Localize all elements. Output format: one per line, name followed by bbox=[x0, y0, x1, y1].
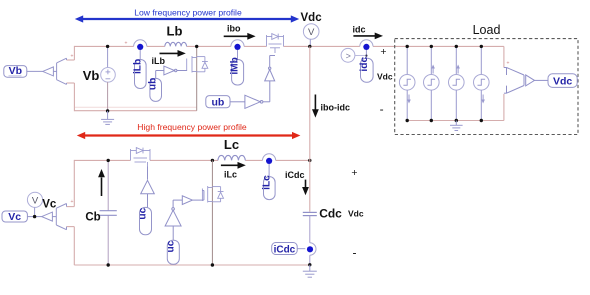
svg-text:>: > bbox=[346, 51, 351, 61]
wire: Vc tag to source bbox=[27, 216, 41, 218]
current source I3 bbox=[449, 46, 465, 120]
gate chain: uc tag to not-up triangle bbox=[165, 240, 179, 264]
junction dot right end bottom rail bbox=[308, 159, 311, 162]
junction dot bottom rail at Vb bbox=[106, 109, 109, 112]
wire not gate to right buffer bbox=[173, 200, 182, 208]
ground (load) bbox=[450, 121, 463, 131]
current source I2 bbox=[424, 46, 440, 120]
junction dots load bottom rail bbox=[406, 119, 483, 122]
svg-text:+: + bbox=[507, 61, 510, 67]
junction dot top rail at Cb bbox=[107, 159, 110, 162]
svg-text:V: V bbox=[32, 195, 39, 206]
goto tag Vdc bbox=[548, 74, 577, 88]
svg-text:ibo: ibo bbox=[227, 24, 241, 34]
scope bubble at idc sensor bbox=[341, 48, 365, 62]
ground (top circuit) bbox=[101, 111, 114, 125]
mosfet Mc1 (horizontal with diode, top) bbox=[131, 148, 151, 167]
junction dot switch node bbox=[195, 45, 198, 48]
svg-text:Lc: Lc bbox=[224, 137, 239, 152]
svg-text:Cb: Cb bbox=[85, 212, 100, 224]
wire: load bottom rail bbox=[407, 120, 504, 122]
svg-text:iMb: iMb bbox=[230, 57, 241, 75]
not gate (vertical, uc inverter) bbox=[165, 208, 181, 226]
annotation arrow ibo bbox=[224, 24, 256, 40]
mosfet Db (high-side, horizontal with diode) bbox=[267, 34, 284, 53]
annotation arrow iLb bbox=[152, 50, 186, 66]
svg-text:iCdc: iCdc bbox=[285, 170, 305, 180]
gate buffer triangle (horizontal) for Mc2 bbox=[182, 191, 204, 205]
wire: bottom rail y=265 bbox=[74, 264, 309, 266]
wire: bottom rail y=110.7 bbox=[74, 110, 196, 112]
LOAD bbox=[395, 23, 578, 135]
svg-text:iLc: iLc bbox=[224, 170, 237, 180]
junction dot Vc signal bbox=[33, 215, 36, 218]
controlled voltage source Vb (signal to electrical) bbox=[53, 54, 73, 85]
annotation arrow idc bbox=[353, 25, 384, 40]
svg-text:-: - bbox=[380, 102, 384, 116]
goto tag idc (vertical) bbox=[359, 57, 373, 83]
from tag Vc bbox=[2, 211, 27, 223]
wire: switch branch x=196.7 bbox=[196, 46, 198, 110]
capacitor Cdc bbox=[303, 212, 317, 215]
wire: Vb tag to source bbox=[27, 70, 43, 72]
svg-text:iLb: iLb bbox=[152, 56, 166, 66]
junction dot switch node c bbox=[211, 159, 214, 162]
annotation arrow iLc bbox=[221, 162, 246, 180]
junction dot bottom rail at switch branch bbox=[211, 263, 214, 266]
goto tag iLb (vertical) bbox=[132, 59, 146, 89]
capacitor Cb branch wire bbox=[107, 160, 109, 265]
current sensor iLc bbox=[263, 154, 276, 177]
junction dots load top rail bbox=[406, 45, 483, 48]
svg-text:ub: ub bbox=[148, 78, 159, 90]
wire uc tag up bbox=[172, 226, 174, 240]
svg-text:Load: Load bbox=[473, 23, 501, 37]
svg-text:iCdc: iCdc bbox=[274, 244, 296, 255]
goto tag ub (vertical, gate source) bbox=[148, 71, 164, 102]
annotation arrow iCdc bbox=[285, 170, 309, 195]
svg-text:Lb: Lb bbox=[167, 24, 183, 39]
current sensor idc on dc bus rail bbox=[360, 40, 373, 58]
gate buffer triangle for Mb bbox=[164, 66, 187, 75]
svg-text:iLc: iLc bbox=[261, 175, 272, 190]
svg-text:iLb: iLb bbox=[132, 59, 143, 74]
wire: top rail segments y=46.4 bbox=[74, 45, 504, 47]
junction dot bottom rail at Cb bbox=[107, 263, 110, 266]
svg-text:Vb: Vb bbox=[9, 65, 22, 77]
junction dot dc bus bbox=[308, 45, 311, 48]
svg-text:+: + bbox=[71, 199, 74, 205]
wire not gate to buffer bbox=[263, 81, 270, 102]
svg-text:Vdc: Vdc bbox=[348, 208, 364, 218]
wire: left rail x=74.3 bbox=[67, 160, 75, 265]
current sensor iMb on top rail bbox=[231, 40, 244, 60]
junction dot dc-link bottom bbox=[308, 263, 311, 266]
load boundary (dashed) bbox=[395, 39, 578, 135]
goto tag iMb (vertical) bbox=[230, 57, 244, 85]
inductor Lb bbox=[165, 42, 187, 46]
goto tag iLc (vertical) bbox=[261, 175, 275, 200]
svg-text:+: + bbox=[71, 54, 74, 60]
svg-text:+: + bbox=[380, 46, 386, 58]
DCLINK bbox=[272, 24, 393, 278]
svg-text:uc: uc bbox=[165, 240, 176, 252]
ground (dc link) bbox=[303, 265, 317, 277]
gate chain: not gate from ub to buffer bbox=[206, 96, 230, 109]
mosfet Mb (low-side, vertical) bbox=[187, 56, 208, 73]
current sensor iCdc bbox=[307, 243, 316, 255]
gain triangle at Vb source input bbox=[43, 67, 54, 76]
svg-text:Vc: Vc bbox=[8, 211, 21, 223]
wire: top rail segments y=160.4 bbox=[74, 159, 309, 161]
junction dot top rail at Vb bbox=[106, 45, 109, 48]
svg-text:V: V bbox=[308, 27, 315, 38]
gate buffer triangle for Mc1 (vertical) bbox=[141, 167, 155, 208]
svg-text:uc: uc bbox=[138, 207, 149, 219]
faint area line bbox=[75, 106, 197, 108]
capacitor Cb bbox=[100, 211, 117, 216]
TOP-CIRCUIT bbox=[4, 24, 504, 125]
gain triangle at Vc source input bbox=[42, 212, 53, 221]
ANNOTATIONS-TOP bbox=[75, 8, 322, 140]
svg-text:Low frequency power profile: Low frequency power profile bbox=[134, 8, 242, 18]
mosfet Mc2 (vertical) bbox=[202, 186, 223, 203]
svg-text:-: - bbox=[353, 246, 357, 260]
svg-text:+: + bbox=[351, 167, 357, 179]
wire: load sensor stubs bbox=[503, 46, 505, 120]
svg-text:idc: idc bbox=[359, 57, 370, 72]
svg-text:Vdc: Vdc bbox=[301, 12, 323, 24]
annotation arrow: high-frequency double arrow bbox=[77, 132, 301, 139]
svg-text:idc: idc bbox=[353, 25, 366, 35]
svg-text:ibo-idc: ibo-idc bbox=[321, 103, 351, 113]
gate buffer triangle (vertical) bbox=[265, 56, 275, 81]
svg-text:Cdc: Cdc bbox=[319, 206, 342, 220]
wire: left rail x=74.4 bbox=[67, 46, 75, 111]
voltage sensor (load Vdc) bbox=[504, 61, 524, 94]
wire ub tag to not gate bbox=[230, 101, 245, 103]
voltage source Vb bbox=[101, 46, 116, 110]
svg-text:Vdc: Vdc bbox=[377, 72, 393, 82]
not gate (ub inverter) bbox=[245, 95, 263, 108]
current sensor iLb on top rail bbox=[134, 40, 147, 60]
inductor Lc bbox=[218, 155, 245, 160]
annotation arrow (Cb current, up) bbox=[98, 169, 105, 196]
controlled voltage source Vc bbox=[52, 199, 73, 230]
svg-text:ub: ub bbox=[211, 97, 224, 109]
svg-text:Vdc: Vdc bbox=[553, 76, 572, 88]
annotation arrow: low-frequency double arrow bbox=[75, 15, 299, 22]
svg-text:+: + bbox=[125, 41, 128, 47]
BOTTOM-CIRCUIT bbox=[2, 137, 311, 267]
wire: dc-link vertical (upper) bbox=[309, 46, 311, 211]
wire: dc-link vertical (lower) bbox=[309, 216, 311, 265]
from tag Vb bbox=[4, 65, 27, 77]
annotation arrow ibo-idc bbox=[312, 95, 350, 118]
voltmeter Vc bbox=[27, 192, 42, 216]
goto tag uc (vertical, Mc1 gate) bbox=[138, 207, 152, 234]
svg-text:Vb: Vb bbox=[83, 68, 100, 83]
wire: switch branch x=212.4 bbox=[211, 160, 213, 265]
svg-text:High frequency power profile: High frequency power profile bbox=[137, 122, 247, 132]
gain triangle to Vdc tag bbox=[526, 75, 548, 86]
svg-text:Vc: Vc bbox=[42, 198, 57, 210]
voltmeter V (dc bus) bbox=[303, 24, 319, 47]
current source I1 bbox=[399, 46, 415, 120]
current source I4 bbox=[474, 46, 490, 120]
goto tag iCdc bbox=[272, 243, 306, 256]
